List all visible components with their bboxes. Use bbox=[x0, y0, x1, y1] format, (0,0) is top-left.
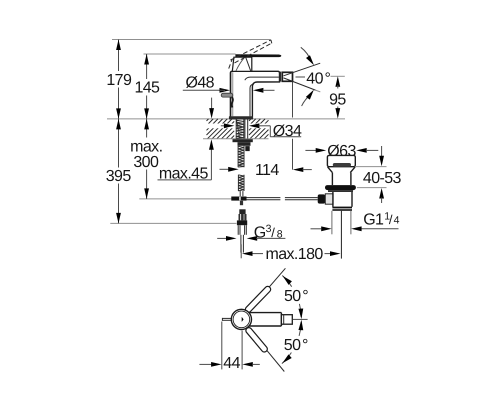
top view: upper 50° ray bbox=[248, 268, 286, 311]
svg-text:395: 395 bbox=[106, 168, 132, 185]
top view: lower 50° arc bbox=[281, 320, 304, 365]
dimension Ø34 arrows bbox=[221, 123, 270, 128]
faucet body inner right line bbox=[250, 84, 254, 116]
threaded rod upper segment bbox=[238, 146, 244, 167]
40° upper arc arrow bbox=[301, 47, 316, 66]
drain body bbox=[333, 192, 352, 207]
pop-up pull rod knob bbox=[221, 93, 233, 97]
40° lower ray bbox=[284, 78, 316, 90]
svg-text:300: 300 bbox=[133, 154, 159, 171]
dimension 179 bbox=[106, 40, 132, 119]
cap dark insert bbox=[333, 163, 351, 167]
base plate bbox=[229, 116, 253, 119]
svg-text:179: 179 bbox=[106, 72, 132, 89]
supply connector nut 2 bbox=[237, 220, 247, 225]
wire: 395 bottom reference line bbox=[110, 222, 236, 224]
hub inner diagonal bbox=[246, 57, 251, 71]
spout end face bbox=[279, 72, 281, 82]
faucet body left edge shading bbox=[231, 72, 233, 116]
dimension 114 bbox=[220, 162, 312, 179]
wire: spout tip reference line upper part bbox=[292, 81, 294, 118]
threaded rod lower segment bbox=[238, 175, 244, 191]
svg-text:G1: G1 bbox=[363, 211, 384, 228]
top view: upper 50° arc bbox=[281, 274, 308, 319]
label max.45 with leader to deck bbox=[158, 98, 215, 183]
handle hub bbox=[232, 57, 252, 71]
svg-text:/: / bbox=[389, 212, 393, 227]
aerator bbox=[282, 72, 292, 81]
svg-text:114: 114 bbox=[255, 162, 279, 179]
top view: lower lever bbox=[245, 326, 269, 353]
svg-text:50°: 50° bbox=[284, 288, 308, 305]
drain body bottom band bbox=[332, 207, 352, 211]
40° upper ray bbox=[284, 63, 321, 76]
deck bottom line bbox=[203, 138, 269, 140]
wire: max.300 bottom reference line bbox=[139, 198, 232, 200]
spout inner line bbox=[245, 77, 279, 80]
dimension max.180 bbox=[241, 244, 340, 263]
svg-text:/: / bbox=[271, 225, 275, 240]
svg-text:40°: 40° bbox=[306, 71, 330, 88]
svg-text:95: 95 bbox=[329, 91, 346, 108]
dimension 395 bbox=[106, 119, 132, 223]
svg-text:G: G bbox=[254, 224, 266, 241]
label Ø48 with leader arrow bbox=[183, 75, 230, 93]
Ø48 right arrow bbox=[253, 88, 275, 93]
raised handle dashed outline bbox=[229, 40, 272, 69]
raised handle tip bbox=[270, 40, 273, 44]
supply connector body bbox=[239, 214, 247, 220]
G3/8 nipple bbox=[238, 225, 246, 235]
cap skirt bbox=[328, 167, 356, 173]
rod socket into drain bbox=[325, 194, 333, 204]
svg-text:50°: 50° bbox=[284, 337, 308, 354]
plug stem bbox=[332, 173, 351, 186]
svg-text:max.180: max.180 bbox=[266, 246, 324, 263]
rod knob at drain bbox=[318, 194, 326, 203]
dimension max.300 bbox=[130, 119, 162, 199]
tailpipe bbox=[332, 211, 351, 259]
svg-text:Ø34: Ø34 bbox=[273, 123, 302, 140]
top view: center pin bbox=[242, 317, 244, 322]
svg-text:44: 44 bbox=[223, 355, 240, 372]
label G3/8 with arrows bbox=[217, 223, 285, 242]
pop-up rod ferrule bbox=[245, 146, 249, 151]
threaded shank in deck hole bbox=[236, 120, 244, 139]
svg-text:40-53: 40-53 bbox=[363, 170, 402, 187]
drain dome cap bbox=[327, 155, 355, 166]
deck hatching left block bbox=[207, 119, 235, 139]
pop-up rod curve into body bbox=[232, 97, 233, 107]
wire: 145 top reference line bbox=[144, 53, 236, 55]
top view: lower 50° ray bbox=[248, 328, 284, 372]
label 40° with leader bbox=[296, 71, 331, 88]
top view: upper lever bbox=[244, 285, 272, 313]
top view: pop-up knob bbox=[222, 318, 231, 321]
drain flange lower lip bbox=[328, 190, 353, 192]
label G1 1/4 with arrows bbox=[311, 210, 400, 231]
faucet body outline bbox=[230, 71, 279, 116]
pop-up transfer rod horizontal bbox=[247, 198, 318, 200]
dimension 95 bbox=[329, 76, 346, 118]
drain flange bbox=[325, 185, 356, 190]
supply connector nut 1 bbox=[239, 209, 245, 214]
label Ø34 flag bbox=[270, 123, 302, 140]
rod coupling bar bbox=[231, 197, 246, 201]
top view: spout bbox=[249, 313, 292, 326]
wire: spout tip reference line lower part bbox=[292, 139, 294, 170]
mounting nut bbox=[238, 142, 251, 146]
dimension 145 bbox=[134, 54, 160, 119]
svg-text:Ø48: Ø48 bbox=[186, 75, 215, 92]
top view: body circle bbox=[231, 309, 251, 329]
svg-text:4: 4 bbox=[394, 215, 400, 227]
dimension 44 bbox=[199, 322, 259, 372]
white halo band for Ø34 arrows bbox=[205, 124, 269, 129]
40° lower arc arrow bbox=[302, 88, 321, 106]
supply hose lines bbox=[241, 235, 244, 253]
handle blade bbox=[235, 54, 281, 57]
svg-text:145: 145 bbox=[134, 80, 160, 97]
dimension Ø63 bbox=[305, 143, 378, 160]
dimension 40-53 bbox=[355, 146, 402, 203]
pop-up rod in deck hole bbox=[245, 120, 248, 139]
hub dome curve bbox=[236, 57, 245, 71]
short rod below coupling bbox=[240, 201, 243, 205]
mounting washer bbox=[233, 139, 253, 142]
wire: deck surface reference line bbox=[107, 118, 345, 120]
wire: 179 top reference line bbox=[112, 39, 271, 41]
rod neck bbox=[240, 191, 243, 196]
svg-text:8: 8 bbox=[277, 229, 283, 241]
deck hatching right block bbox=[249, 119, 269, 139]
